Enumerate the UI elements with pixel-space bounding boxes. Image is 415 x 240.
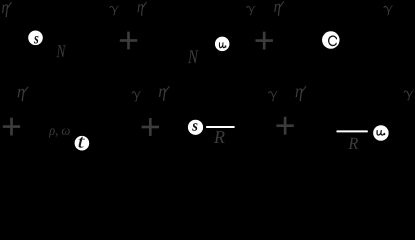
label gamma, diagram 5 (resonance s) <box>269 91 277 100</box>
label N (nucleon), diagram 1 <box>56 45 65 57</box>
white vertex circle: contact-term blob with letter C <box>322 31 340 49</box>
label eta-prime, diagram 5 (resonance s) <box>159 87 169 101</box>
plus sign p4 <box>142 118 159 136</box>
white resonance propagator line l1 <box>206 126 235 128</box>
label eta-prime, diagram 3 (contact) <box>274 2 283 16</box>
white vertex circle: u-channel blob with letter u <box>215 37 230 52</box>
white resonance propagator line l2 <box>336 130 368 132</box>
white vertex circle: resonance s-channel blob <box>188 120 203 135</box>
plus sign p5 <box>276 117 293 135</box>
label N (nucleon), diagram 2 <box>188 50 199 63</box>
letter t inside circle ct <box>79 137 86 148</box>
label gamma, diagram 4 (t-channel) <box>132 91 140 101</box>
white vertex circle: s-channel blob with letter s <box>28 31 43 46</box>
letter u inside circle cu2 <box>377 131 385 135</box>
label gamma, diagram 1 (s-channel) <box>110 6 118 15</box>
label eta-prime, diagram 1 (s-channel) <box>2 2 11 17</box>
white vertex circle: t-channel blob with letter t <box>75 136 90 151</box>
label gamma, diagram 6 (resonance u) <box>404 91 413 100</box>
label rho, omega (exchanged mesons), diagram 4 <box>49 128 70 137</box>
white vertex circle: resonance u-channel blob <box>373 125 389 141</box>
letter s inside circle cs2 <box>192 123 197 130</box>
label eta-prime, diagram 4 (t-channel) <box>18 87 28 101</box>
label gamma, diagram 2 (u-channel) <box>247 6 255 15</box>
label R (resonance), diagram 6 <box>348 138 358 149</box>
plus sign p1 <box>120 32 137 50</box>
label eta-prime, diagram 2 (u-channel) <box>137 2 146 15</box>
plus sign p3 <box>3 118 20 136</box>
plus sign p2 <box>256 32 273 50</box>
letter s inside circle cs1 <box>34 36 38 43</box>
label R (resonance), diagram 5 <box>214 131 225 143</box>
label eta-prime, diagram 6 (resonance u) <box>296 86 306 101</box>
letter C inside circle cC <box>329 36 337 46</box>
label gamma, diagram 3 (contact) <box>384 6 392 15</box>
letter u inside circle cu1 <box>219 43 225 48</box>
